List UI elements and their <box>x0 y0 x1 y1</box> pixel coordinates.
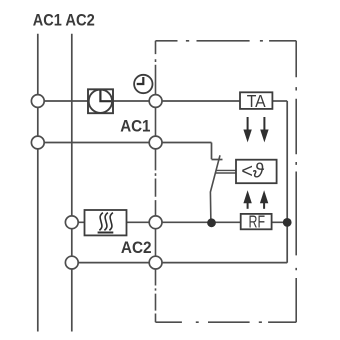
timer switch box <box>88 89 113 113</box>
wire line C (heater/RF row, y=222.3) <box>78 221 287 223</box>
heater wavy line 3 <box>109 213 113 231</box>
svg-text:TA: TA <box>247 91 266 111</box>
up arrow 2 <box>260 190 268 203</box>
timer clock hands <box>100 90 111 101</box>
junction dot left <box>207 218 216 227</box>
frame right edge (dash-dot) <box>295 41 297 322</box>
thermostat box <box>236 160 277 184</box>
svg-text:AC1: AC1 <box>33 11 62 30</box>
timer clock face <box>89 90 112 113</box>
box RF <box>241 214 272 229</box>
svg-text:AC1: AC1 <box>120 116 150 135</box>
terminal node C-right <box>149 216 162 229</box>
terminal node C-left <box>65 216 78 229</box>
up arrow 1 <box>243 190 251 203</box>
frame left edge (dash-dot) <box>155 41 157 322</box>
heater wavy line 1 <box>99 213 103 231</box>
frame top edge (dash-dot) <box>156 40 297 42</box>
down arrow 2 <box>263 117 265 130</box>
mechanical link double line <box>216 170 236 173</box>
wire TA to right bus <box>272 100 287 102</box>
wire AC2 supply vertical <box>71 34 73 332</box>
terminal node D-right <box>149 256 162 269</box>
svg-text:<ϑ: <ϑ <box>241 161 265 183</box>
small clock symbol <box>134 75 152 93</box>
switch blade <box>210 155 220 223</box>
frame bottom edge (dash-dot) <box>156 321 297 323</box>
wire line D (AC2 row, y=262.6) <box>78 262 287 264</box>
junction dot right <box>283 218 292 227</box>
wire right bus vertical <box>286 101 288 263</box>
heater base bar <box>98 232 114 234</box>
box TA <box>240 92 272 109</box>
switch contact L-end <box>212 159 223 161</box>
svg-text:AC2: AC2 <box>65 11 94 30</box>
wire line A (timer row, y=101) <box>44 100 240 102</box>
wire AC1 supply vertical <box>37 34 39 332</box>
terminal node D-left <box>65 256 78 269</box>
svg-text:AC2: AC2 <box>121 238 152 257</box>
heater wavy line 2 <box>104 213 108 231</box>
terminal node B-left <box>31 136 44 149</box>
terminal node B-right <box>149 136 162 149</box>
down arrow 1 <box>247 117 249 130</box>
small clock hands <box>137 77 144 84</box>
wire line B (AC1 row, y=142.5) <box>44 143 211 160</box>
terminal node A-right <box>149 95 162 108</box>
heater element box <box>85 210 127 235</box>
svg-text:RF: RF <box>249 211 266 231</box>
terminal node A-left <box>31 95 44 108</box>
